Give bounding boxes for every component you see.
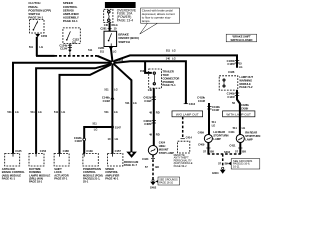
- svg-text:SWITCH: SWITCH: [118, 40, 130, 44]
- svg-text:511: 511: [72, 41, 77, 45]
- module box ABS: [2, 154, 25, 181]
- svg-text:LG: LG: [242, 126, 246, 130]
- svg-text:C410b: C410b: [197, 95, 205, 99]
- svg-text:511: 511: [7, 110, 12, 114]
- svg-text:511: 511: [104, 88, 109, 92]
- svg-text:PAGE 16-10: PAGE 16-10: [159, 182, 173, 185]
- svg-text:LAMP: LAMP: [213, 137, 221, 141]
- svg-text:BK: BK: [242, 149, 246, 153]
- svg-text:C424: C424: [142, 157, 149, 161]
- svg-text:C410b: C410b: [212, 105, 220, 109]
- svg-text:511: 511: [166, 48, 171, 52]
- svg-text:140: 140: [166, 56, 171, 60]
- svg-text:C412f: C412f: [144, 99, 151, 103]
- wire w/o box to RAP module: [182, 117, 184, 139]
- connector C412 in-line: [152, 96, 156, 98]
- lamp RH rear stop/turn: [236, 134, 244, 142]
- svg-text:C409: C409: [198, 130, 205, 134]
- svg-text:511: 511: [88, 48, 93, 52]
- svg-text:511: 511: [104, 110, 109, 114]
- svg-text:STOP/TURN: STOP/TURN: [213, 134, 228, 138]
- option box with lamp out: [223, 111, 255, 117]
- svg-text:CONNECTOR: CONNECTOR: [163, 76, 180, 80]
- module box DRL: [29, 154, 50, 184]
- svg-text:lamps.: lamps.: [142, 19, 151, 23]
- fuse F1 label: [117, 8, 137, 22]
- svg-text:511: 511: [212, 120, 217, 124]
- svg-text:S404: S404: [224, 150, 231, 154]
- lamp high mount label: [159, 141, 174, 155]
- svg-text:C409: C409: [198, 142, 205, 146]
- fuse F1 in dashed fuse panel box: [104, 9, 113, 22]
- module box shift lock actuator: [54, 154, 69, 181]
- wire R1 splice to lamp out warning module: [114, 55, 237, 67]
- callout note box: [140, 8, 180, 34]
- svg-text:C152: C152: [40, 149, 47, 153]
- svg-text:C140b: C140b: [227, 91, 235, 95]
- svg-text:LG: LG: [38, 110, 42, 114]
- wire 511 from servo: [69, 44, 71, 51]
- svg-text:STOP LAMP: STOP LAMP: [159, 151, 174, 155]
- svg-text:C412: C412: [189, 102, 196, 106]
- svg-text:BK: BK: [210, 149, 214, 153]
- wire R2 splice to rear lamps: [114, 61, 185, 103]
- off-page arrow FROM CAM: [126, 152, 137, 158]
- speed control servo label: [63, 1, 80, 23]
- svg-text:W/O LAMP OUT: W/O LAMP OUT: [176, 112, 199, 116]
- svg-text:C118b: C118b: [74, 136, 82, 140]
- wire B splice to DRL module: [36, 64, 111, 154]
- svg-text:C410f: C410f: [212, 108, 219, 112]
- svg-text:LG: LG: [172, 48, 176, 52]
- wire R1 down the right column: [235, 59, 239, 61]
- wire E splice diagonal to FROM CAM arrow: [114, 64, 131, 152]
- connector C406 in-line: [152, 119, 156, 121]
- svg-text:MOUNT: MOUNT: [159, 147, 169, 151]
- svg-text:C135f: C135f: [227, 62, 234, 66]
- trailer tow connector label: [163, 70, 180, 88]
- wire ground dashed 57 BK: [152, 155, 154, 180]
- svg-text:LG: LG: [114, 110, 118, 114]
- svg-text:C281: C281: [100, 27, 107, 31]
- svg-text:140: 140: [148, 88, 153, 92]
- module lamp out warning label: [239, 75, 253, 89]
- trailer tow connector body: [149, 69, 162, 88]
- svg-text:C157: C157: [115, 149, 122, 153]
- svg-text:511: 511: [31, 110, 36, 114]
- wire ground bus: [208, 153, 242, 155]
- wire LH lamp feed: [208, 103, 210, 135]
- svg-text:LG: LG: [113, 49, 117, 53]
- svg-text:MODULE: MODULE: [239, 82, 251, 86]
- switch SW1 clutch pedal position (CPP) label: [28, 1, 51, 19]
- power label HOT AT ALL TIMES: [105, 2, 136, 8]
- svg-text:LG: LG: [212, 124, 216, 128]
- svg-text:RD: RD: [156, 110, 160, 114]
- svg-text:RD: RD: [156, 132, 160, 136]
- wire branch to trailer tow connector: [145, 61, 152, 73]
- svg-text:BK: BK: [155, 165, 159, 169]
- svg-text:PAGE 41-7: PAGE 41-7: [124, 163, 138, 167]
- svg-text:C139: C139: [86, 149, 93, 153]
- module box speed control amplifier: [105, 154, 123, 181]
- svg-text:C412b: C412b: [143, 95, 151, 99]
- svg-text:511: 511: [100, 49, 105, 53]
- svg-text:511: 511: [125, 101, 130, 105]
- svg-text:PAGE 13-4: PAGE 13-4: [117, 19, 134, 23]
- svg-text:PAGE 18-1: PAGE 18-1: [29, 180, 43, 184]
- svg-text:PAGE 41-1: PAGE 41-1: [2, 177, 16, 181]
- note box see grounds right: [228, 159, 260, 169]
- svg-text:16-11: 16-11: [233, 165, 240, 169]
- svg-text:SWITCH CLOSED: SWITCH CLOSED: [230, 38, 252, 42]
- module box lamp out warning: [219, 76, 238, 90]
- svg-text:LG: LG: [239, 65, 243, 69]
- svg-text:PAGE 40-1: PAGE 40-1: [105, 177, 119, 181]
- lamp LH rear stop/turn: [204, 134, 212, 142]
- svg-text:C135: C135: [15, 149, 22, 153]
- svg-text:BK: BK: [225, 161, 229, 165]
- svg-text:C414: C414: [186, 135, 193, 139]
- svg-text:LH REAR: LH REAR: [213, 130, 225, 134]
- svg-text:LAMP OUT: LAMP OUT: [239, 75, 253, 79]
- svg-text:LG: LG: [172, 56, 176, 60]
- svg-text:PAGE 71-2: PAGE 71-2: [239, 85, 253, 89]
- note box brake shift: [226, 34, 256, 42]
- lamp LH label: [213, 130, 228, 141]
- svg-text:PAGE 34-1: PAGE 34-1: [63, 19, 78, 23]
- wire trailer tow to high mount stoplamp: [153, 88, 155, 145]
- module box PCM: [83, 154, 103, 184]
- svg-text:STOP/TURN: STOP/TURN: [245, 134, 260, 138]
- svg-text:LG: LG: [114, 88, 118, 92]
- connector C281 above BOO: [108, 28, 112, 30]
- svg-text:C149f: C149f: [103, 99, 110, 103]
- svg-text:(POWER): (POWER): [163, 80, 175, 84]
- svg-text:HIGH: HIGH: [159, 144, 166, 148]
- wire S310 branch to PCM: [84, 127, 112, 154]
- speed control servo body U2: [63, 28, 80, 44]
- svg-text:511: 511: [233, 126, 238, 130]
- svg-text:C450: C450: [41, 34, 48, 38]
- svg-text:HOT AT ALL TIMES: HOT AT ALL TIMES: [106, 3, 134, 7]
- wire LH lamp to ground bus: [207, 143, 209, 154]
- svg-text:S147: S147: [115, 125, 122, 129]
- connector C124 in-line ticks: [68, 44, 72, 46]
- svg-text:C410f: C410f: [198, 99, 205, 103]
- svg-text:C424: C424: [159, 141, 166, 145]
- svg-text:C406f: C406f: [144, 122, 151, 126]
- connector C424 below lamp: [151, 157, 155, 159]
- wire D splice down to S310: [111, 65, 113, 154]
- svg-text:R/LG: R/LG: [112, 23, 118, 27]
- brake on/off switch SW2 body: [104, 31, 117, 46]
- splice S303: [110, 60, 115, 65]
- svg-text:LG: LG: [15, 110, 19, 114]
- svg-text:TOW: TOW: [163, 73, 170, 77]
- brake on/off switch label: [118, 33, 138, 44]
- svg-text:C135b: C135b: [227, 59, 235, 63]
- lamp RH label: [245, 131, 260, 142]
- svg-text:LG: LG: [39, 45, 43, 49]
- svg-text:C411: C411: [229, 143, 236, 147]
- svg-text:C118f: C118f: [75, 139, 82, 143]
- splice S310: [111, 126, 114, 129]
- module box RAP: [174, 141, 193, 168]
- svg-text:WARNING: WARNING: [239, 78, 252, 82]
- wire BOO to splice: [111, 47, 113, 62]
- ground G304: [212, 167, 226, 175]
- option box w/o lamp out: [172, 111, 203, 117]
- switch SW1 CPP switch body: [30, 19, 44, 33]
- svg-text:C124f: C124f: [60, 47, 67, 51]
- wire A splice to ABS module: [13, 63, 110, 154]
- svg-text:G304: G304: [212, 171, 219, 175]
- svg-text:PAGE 87-1: PAGE 87-1: [54, 177, 68, 181]
- svg-text:C426: C426: [228, 70, 235, 74]
- svg-text:C281: C281: [98, 46, 105, 50]
- svg-text:LG: LG: [115, 137, 119, 141]
- wire fuse to BOO switch: [109, 23, 111, 32]
- connector C410 in-line: [207, 105, 211, 107]
- svg-text:153: 153: [140, 69, 145, 73]
- lamp high mount stop lamp: [148, 146, 157, 155]
- svg-text:511: 511: [93, 122, 98, 126]
- svg-text:140: 140: [104, 23, 109, 27]
- wire C splice to shift lock actuator: [60, 65, 111, 154]
- svg-text:PAGE 99-2: PAGE 99-2: [174, 164, 187, 168]
- svg-text:LG: LG: [133, 101, 137, 105]
- connector arrow below servo wire: [68, 50, 71, 53]
- connector C149 in-line on wire D: [110, 96, 114, 99]
- note box see grounds left: [155, 177, 179, 185]
- connector C450 arrow below CPP: [35, 34, 40, 37]
- svg-text:511: 511: [29, 45, 34, 49]
- svg-text:C140f: C140f: [227, 95, 234, 99]
- svg-text:C149b: C149b: [102, 95, 110, 99]
- wire 511 from CPP switch: [36, 37, 38, 56]
- wire lamp out module to RH lamp: [237, 90, 240, 134]
- wire collector to splice: [36, 55, 55, 57]
- svg-text:TRAILER: TRAILER: [163, 70, 174, 74]
- wire dashed option segment to splice: [69, 52, 71, 55]
- svg-text:G402: G402: [150, 186, 157, 189]
- svg-text:C426b: C426b: [241, 103, 249, 107]
- svg-text:WITH LAMP OUT: WITH LAMP OUT: [226, 112, 251, 116]
- svg-text:LAMP: LAMP: [245, 137, 253, 141]
- svg-text:511: 511: [54, 110, 59, 114]
- connector C412 end of R2: [184, 103, 188, 105]
- svg-text:PAGE 71-1: PAGE 71-1: [163, 83, 177, 87]
- svg-text:C186: C186: [63, 149, 70, 153]
- svg-text:C411: C411: [229, 130, 236, 134]
- wire RH lamp to ground bus: [239, 143, 241, 154]
- svg-text:LG: LG: [94, 127, 98, 131]
- svg-text:25-1: 25-1: [83, 180, 89, 184]
- svg-text:LG: LG: [62, 110, 66, 114]
- svg-text:C406b: C406b: [143, 119, 151, 123]
- ground G402: [150, 179, 157, 189]
- connector C140 in-line: [235, 92, 239, 94]
- wire bus to ground G304: [222, 154, 224, 167]
- svg-text:RH REAR: RH REAR: [245, 131, 257, 135]
- svg-text:C426f: C426f: [241, 107, 248, 111]
- connector C118 in-line on PCM branch: [83, 138, 86, 141]
